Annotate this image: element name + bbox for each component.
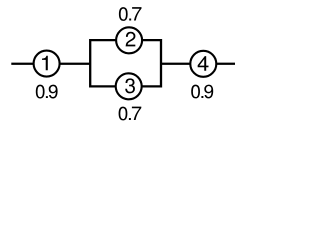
node 4 bbox=[190, 51, 216, 77]
wire: left parallel bracket (vertical with stubs to node 2 and node 3) bbox=[90, 40, 128, 86]
node 1 bbox=[34, 51, 60, 77]
node 2 bbox=[116, 27, 142, 53]
wire: right junction through node 4 to right lead bbox=[161, 63, 235, 65]
value label 0.7 (node 2) bbox=[119, 7, 142, 21]
value label 0.9 (node 1) bbox=[36, 85, 58, 99]
wire: left lead through node 1 to left junction bbox=[11, 63, 90, 65]
wire: right parallel bracket (stubs from node 2 and node 3 into vertical) bbox=[130, 40, 161, 86]
value label 0.9 (node 4) bbox=[191, 85, 213, 99]
node 3 bbox=[116, 73, 142, 99]
value label 0.7 (node 3) bbox=[119, 107, 142, 121]
